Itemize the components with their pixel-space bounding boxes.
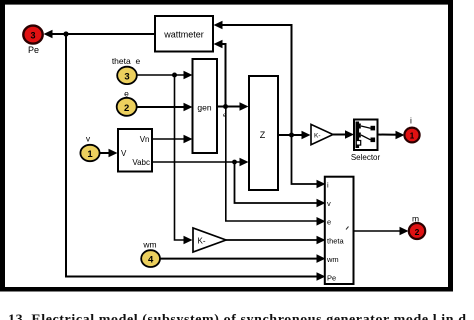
svg-text:i: i (410, 116, 412, 126)
svg-text:wm: wm (142, 240, 156, 250)
wire i signal down to mux input i (292, 135, 326, 188)
node junction i signal (289, 133, 294, 138)
svg-text:wattmeter: wattmeter (163, 30, 204, 40)
gain K- comparator (small triangle) (311, 124, 333, 144)
node junction Pe feedback (63, 31, 68, 36)
svg-text:2: 2 (124, 103, 129, 114)
wire Selector to port i (378, 131, 405, 140)
port 2 e (yellow input port) (117, 98, 137, 116)
svg-text:wm: wm (326, 255, 339, 264)
svg-text:Z: Z (260, 130, 266, 140)
wire Z output to gain K- comparator (278, 131, 311, 140)
svg-text:Pe: Pe (28, 45, 39, 55)
wire Pe feedback down and right to mux input Pe (66, 34, 326, 281)
svg-text:3: 3 (30, 31, 35, 41)
block Selector U2 (354, 120, 378, 151)
wire port2 to gen input2 (137, 103, 193, 112)
port 3 theta e (yellow input port) (117, 67, 137, 84)
node junction e signal (223, 104, 228, 109)
svg-text:Selector: Selector (351, 153, 381, 162)
svg-text:gen: gen (197, 103, 211, 113)
block mux measurements (325, 177, 354, 284)
wire Vabc to block Z input2 (152, 158, 249, 167)
svg-text:2: 2 (415, 227, 420, 237)
block Z (249, 76, 278, 190)
svg-text:v: v (327, 199, 331, 208)
wire e signal down to mux input e (226, 107, 326, 226)
svg-text:e: e (327, 218, 331, 227)
svg-text:theta: theta (327, 236, 345, 245)
port 1 v (yellow input port) (80, 145, 99, 161)
block wattmeter U1 (155, 16, 213, 52)
wire wattmeter output to port Pe (44, 30, 156, 39)
svg-text:Vn: Vn (140, 135, 150, 144)
svg-text:1: 1 (410, 132, 415, 141)
wire v signal down to mux input v (235, 162, 326, 207)
wire gain K- output to mux input theta (226, 236, 326, 245)
node junction v signal (232, 160, 237, 165)
svg-text:4: 4 (148, 255, 154, 266)
svg-text:1: 1 (87, 149, 93, 160)
svg-text:V: V (121, 149, 127, 158)
port 2 m (red output port) (409, 223, 425, 239)
wire port3 to gen input1 (137, 71, 193, 80)
node junction theta e (172, 73, 177, 78)
port 3 Pe (red output port) (23, 26, 42, 44)
wire i feedback to wattmeter input 1 (214, 21, 292, 135)
svg-text:K-: K- (198, 237, 206, 246)
block V/Vabc subsystem (118, 129, 152, 172)
wire port1 to V block (100, 149, 118, 158)
wire Vn to gen input3 (152, 135, 193, 144)
port 1 i (red output port) (404, 128, 419, 143)
svg-text:Pe: Pe (327, 273, 336, 282)
wire mux output to port m (354, 227, 409, 236)
svg-text:theta e: theta e (112, 56, 141, 66)
svg-text:13. Electrical model (subsyste: 13. Electrical model (subsystem) of sync… (8, 313, 466, 320)
wire port4 to mux input wm (160, 254, 326, 263)
wire e feedback to wattmeter input 2 (214, 40, 226, 107)
wire theta feedback down to gain K- input (175, 75, 193, 244)
svg-text:K-: K- (314, 132, 321, 139)
wire gen output to block Z input1 (217, 102, 249, 111)
svg-text:Vabc: Vabc (132, 158, 150, 167)
block gen (193, 59, 218, 153)
wire gain to Selector (333, 130, 354, 139)
port 4 wm (yellow input port) (141, 250, 160, 267)
gain K- (triangle) (193, 228, 226, 252)
svg-text:3: 3 (124, 71, 129, 82)
